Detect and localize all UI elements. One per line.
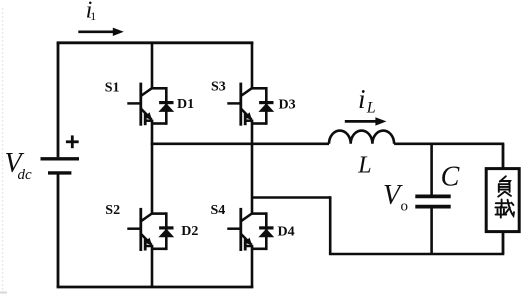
transistor S1 gate lead	[127, 102, 141, 105]
transistor S3 emitter diagonal with arrow	[241, 109, 252, 120]
diode D4 bottom stub wire	[251, 248, 266, 251]
wire: node A output to inductor (crosses right leg, no junction)	[151, 143, 329, 146]
diode D1 triangle (anode, pointing up)	[158, 103, 174, 112]
label: load character 载	[495, 199, 514, 217]
transistor S3 gate lead	[227, 102, 241, 105]
svg-text:D3: D3	[279, 98, 296, 113]
diode D3 vertical wire	[265, 87, 268, 125]
diode D1 vertical wire	[165, 87, 168, 125]
svg-text:dc: dc	[18, 167, 33, 183]
transistor S2 emitter diagonal with arrow	[141, 234, 152, 245]
svg-text:D2: D2	[181, 224, 198, 239]
wire: left wire upper (source + to top rail)	[57, 43, 60, 157]
diode D3 bottom stub wire	[251, 122, 266, 125]
transistor S1 gate bar	[139, 83, 142, 126]
svg-text:1: 1	[90, 9, 96, 23]
transistor S3 emitter bar	[244, 113, 247, 125]
wire: capacitor bottom lead	[430, 209, 433, 255]
svg-text:D1: D1	[177, 97, 194, 112]
wire: top rail from source to bridge	[57, 41, 254, 44]
diode D2 triangle (anode, pointing up)	[158, 229, 174, 238]
transistor S2 gate lead	[127, 227, 141, 230]
transistor S4 emitter bar	[244, 238, 247, 250]
wire: S3 collector lead from top rail	[251, 43, 254, 89]
transistor S1 collector diagonal	[141, 88, 153, 96]
wire: left wire lower (source - to bottom rail)	[57, 175, 60, 288]
svg-text:S1: S1	[105, 80, 120, 95]
capacitor C bottom plate	[415, 205, 450, 209]
wire: load bottom lead	[502, 232, 505, 254]
diode D1 cathode bar	[159, 101, 173, 104]
diode D3 triangle (anode, pointing up)	[258, 103, 274, 112]
svg-text:i: i	[358, 84, 366, 114]
arrow: iL direction	[345, 120, 378, 123]
wire: bottom rail	[57, 286, 254, 289]
diode D4 triangle (anode, pointing up)	[258, 229, 274, 238]
diode D3 cathode bar	[259, 101, 273, 104]
wire: S2 emitter lead to bottom rail	[151, 246, 154, 287]
diode D2 bottom stub wire	[151, 248, 166, 251]
wire: capacitor top lead	[430, 144, 433, 195]
load box (fu-zai)	[486, 169, 519, 232]
transistor S4 emitter connector	[245, 245, 254, 248]
battery Vdc positive plate (long)	[41, 157, 80, 160]
svg-text:C: C	[441, 162, 460, 193]
faint page scan edge (left)	[2, 8, 4, 292]
transistor S3 gate bar	[239, 83, 242, 126]
diode D4 vertical wire	[265, 212, 268, 250]
wire: load top lead	[502, 144, 505, 169]
transistor S3 emitter connector	[245, 119, 254, 122]
label: + polarity mark	[66, 140, 79, 143]
svg-text:S4: S4	[211, 203, 226, 218]
transistor S2 collector diagonal	[141, 213, 153, 221]
transistor S4 emitter diagonal with arrow	[241, 234, 252, 245]
diode D2 top stub wire	[151, 212, 166, 215]
diode D1 bottom stub wire	[151, 122, 166, 125]
svg-text:L: L	[357, 152, 371, 178]
transistor S4 collector diagonal	[241, 213, 253, 221]
battery Vdc negative plate (short)	[48, 171, 71, 174]
svg-text:S3: S3	[211, 80, 226, 95]
diode D2 cathode bar	[159, 226, 173, 229]
arrow: i1 direction	[78, 30, 115, 33]
diode D2 vertical wire	[165, 212, 168, 250]
transistor S1 emitter connector	[145, 119, 154, 122]
wire: inductor to output node / load top	[394, 143, 504, 146]
label: load character 负	[498, 176, 511, 196]
diode D1 top stub wire	[151, 87, 166, 90]
diode D4 top stub wire	[251, 212, 266, 215]
inductor L (3 humps)	[329, 131, 394, 144]
svg-text:D4: D4	[278, 224, 295, 239]
transistor S3 collector diagonal	[241, 88, 253, 96]
diode D4 cathode bar	[259, 226, 273, 229]
transistor S2 emitter connector	[145, 245, 154, 248]
wire: node B to output bottom (right leg midpoint branch)	[252, 196, 330, 199]
diode D3 top stub wire	[251, 87, 266, 90]
capacitor C top plate	[415, 194, 450, 198]
transistor S4 gate bar	[239, 208, 242, 251]
wire: left leg middle (S1 emitter to S2 collector, node A)	[151, 121, 154, 213]
wire: S4 emitter lead to bottom rail	[251, 246, 254, 287]
transistor S2 emitter bar	[144, 238, 147, 250]
svg-text:S2: S2	[105, 203, 120, 218]
wire: right leg middle (S3 emitter to S4 collector, node B)	[251, 121, 254, 213]
svg-text:L: L	[366, 99, 376, 116]
transistor S1 emitter bar	[144, 113, 147, 125]
svg-text:o: o	[401, 198, 409, 214]
transistor S1 emitter diagonal with arrow	[141, 109, 152, 120]
transistor S2 gate bar	[139, 208, 142, 251]
wire: S1 collector lead from top rail	[151, 43, 154, 89]
transistor S4 gate lead	[227, 227, 241, 230]
faint page scan smudge (bottom-left)	[0, 291, 7, 293]
wire: output bottom rail	[329, 253, 504, 256]
